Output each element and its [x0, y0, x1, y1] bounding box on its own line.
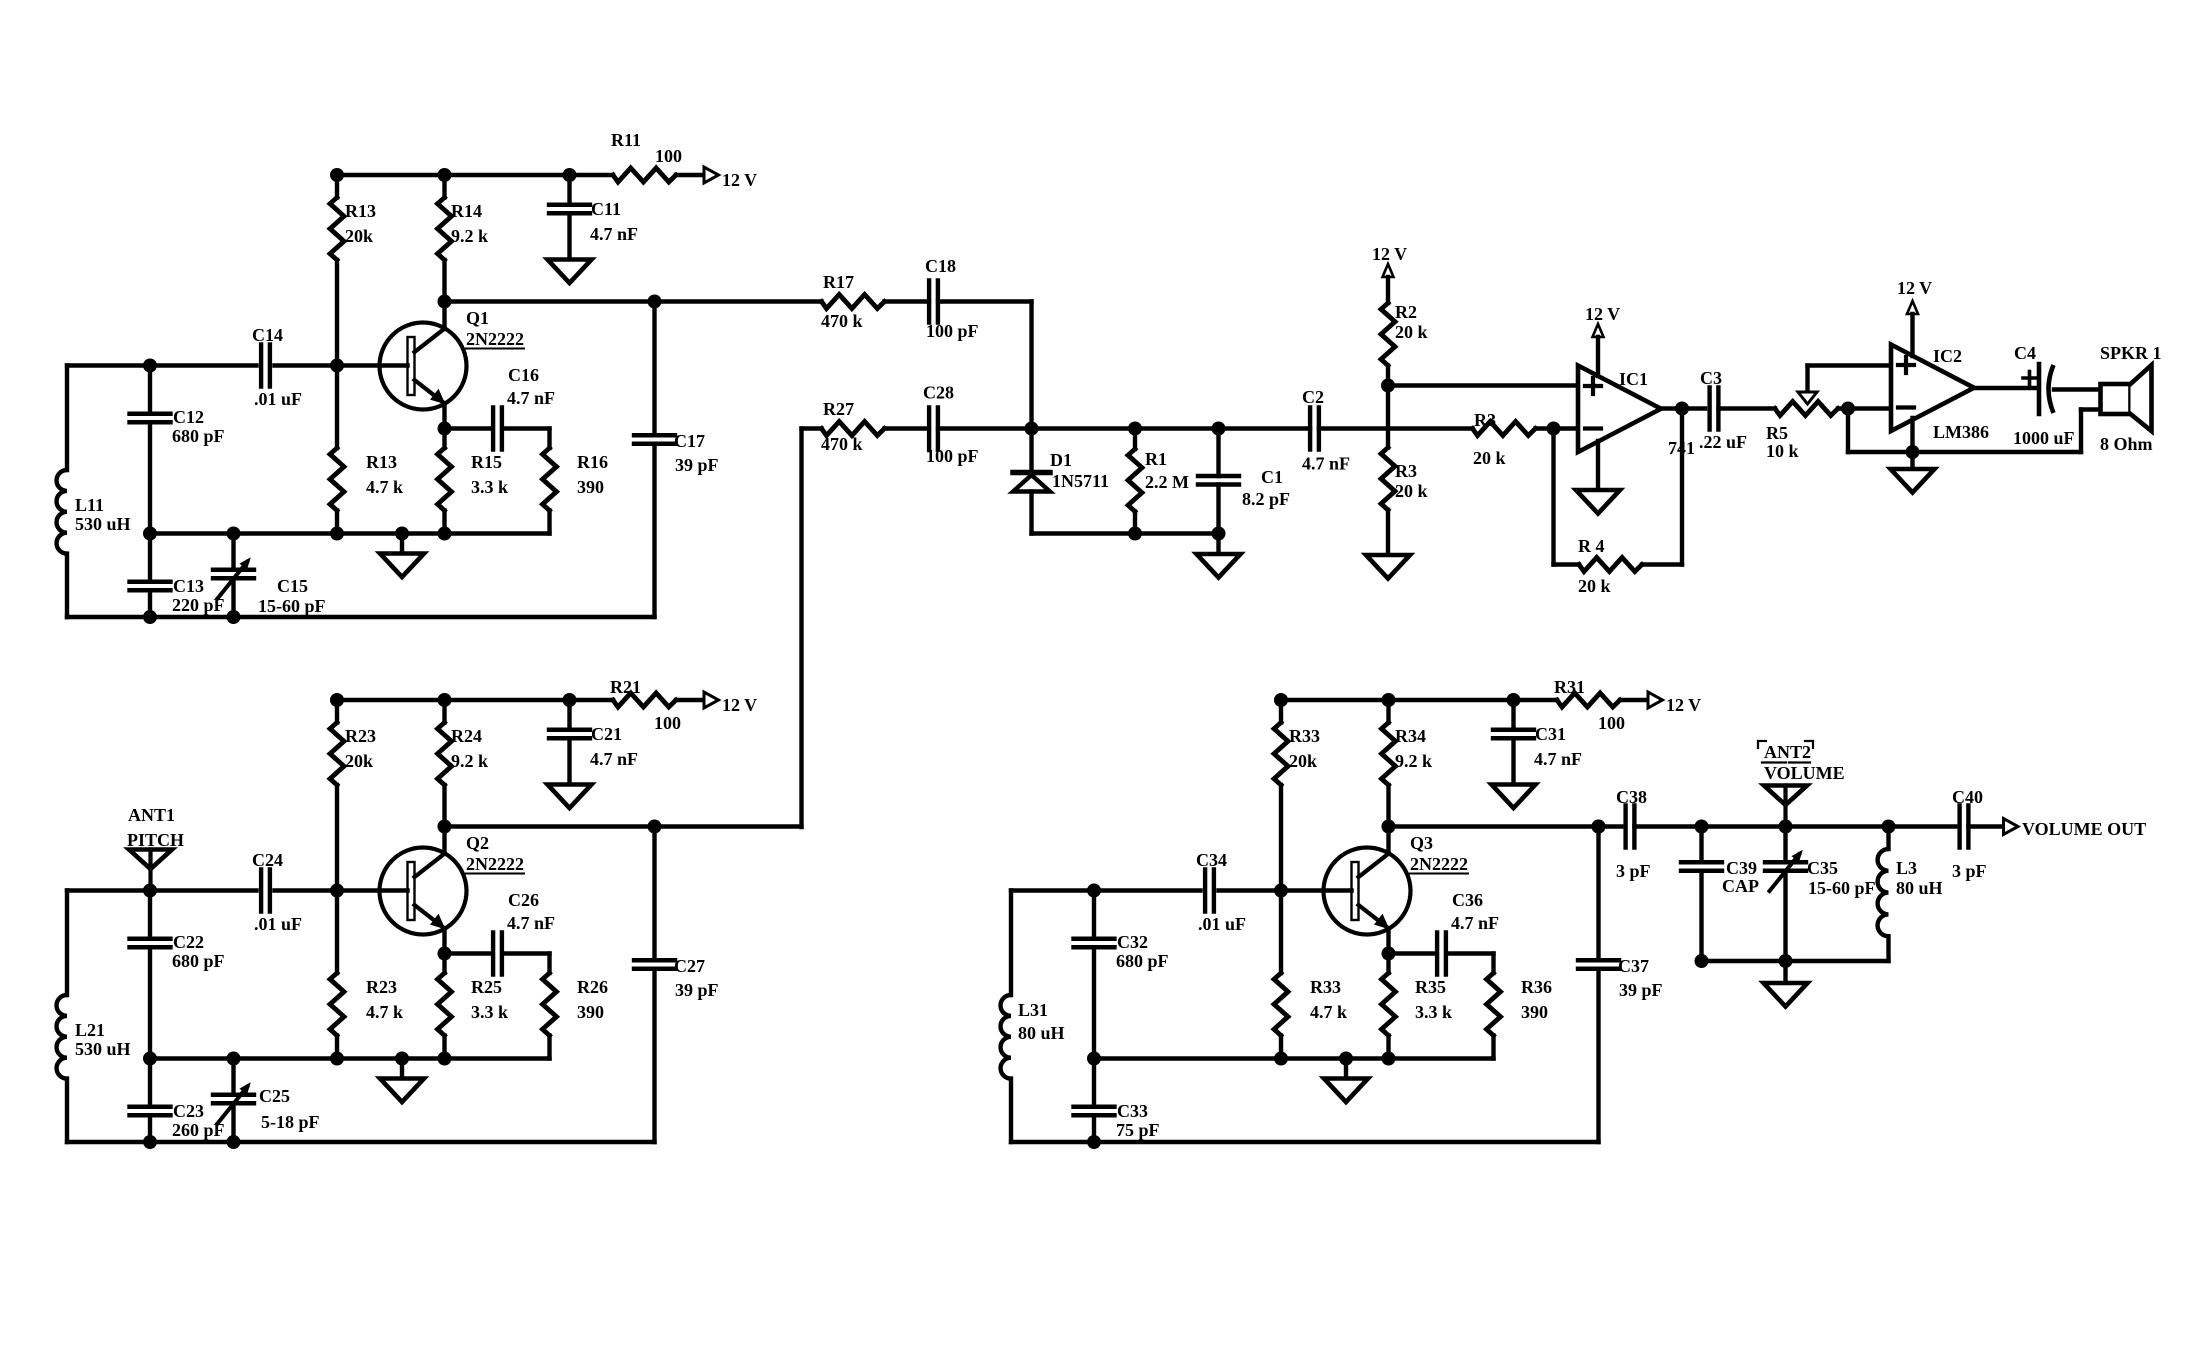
svg-text:4.7 nF: 4.7 nF	[1302, 454, 1350, 474]
svg-text:C26: C26	[508, 890, 539, 910]
capacitor C39 CAP	[1699, 827, 1703, 863]
capacitor C37 39 pF (feedback)	[1596, 827, 1600, 961]
resistor R23 20k (bias upper)	[335, 700, 339, 723]
svg-text:8 Ohm: 8 Ohm	[2100, 434, 2153, 454]
svg-text:C35: C35	[1807, 858, 1838, 878]
svg-text:3.3 k: 3.3 k	[1415, 1002, 1452, 1022]
resistor R15 3.3 k (emitter)	[442, 429, 446, 449]
svg-text:10 k: 10 k	[1766, 441, 1799, 461]
svg-text:8.2 pF: 8.2 pF	[1242, 489, 1290, 509]
resistor R24 9.2 k (collector)	[442, 700, 446, 723]
svg-text:R2: R2	[1395, 302, 1417, 322]
svg-text:100: 100	[655, 146, 682, 166]
svg-text:C18: C18	[925, 256, 956, 276]
svg-text:12 V: 12 V	[1897, 278, 1932, 298]
svg-text:R15: R15	[471, 452, 502, 472]
capacitor C28 100 pF	[927, 408, 931, 450]
capacitor C1 8.2 pF	[1216, 429, 1220, 477]
svg-text:100: 100	[654, 713, 681, 733]
svg-text:12 V: 12 V	[722, 695, 757, 715]
wire bias node to op-amp + input	[1381, 379, 1395, 393]
variable capacitor C35 15-60 pF	[1783, 827, 1787, 863]
wire tank lower rail block 3	[1011, 1140, 1599, 1144]
svg-text:.01 uF: .01 uF	[254, 914, 302, 934]
wire top supply rail block 3	[1281, 698, 1557, 702]
svg-text:2N2222: 2N2222	[1410, 854, 1468, 874]
svg-text:R33: R33	[1289, 726, 1320, 746]
resistor R3 20 k (input)	[1473, 422, 1536, 436]
resistor R35 3.3 k (emitter)	[1386, 954, 1390, 974]
capacitor C32 680 pF	[1092, 891, 1096, 939]
svg-text:530 uH: 530 uH	[75, 1039, 131, 1059]
svg-text:C32: C32	[1117, 932, 1148, 952]
svg-text:15-60 pF: 15-60 pF	[258, 596, 326, 616]
wire emitter node block 2	[438, 947, 452, 961]
svg-text:R16: R16	[577, 452, 608, 472]
svg-text:680 pF: 680 pF	[172, 951, 225, 971]
svg-text:470 k: 470 k	[821, 311, 863, 331]
svg-text:.01 uF: .01 uF	[1198, 914, 1246, 934]
svg-text:15-60 pF: 15-60 pF	[1808, 878, 1876, 898]
transistor Q3 2N2222	[1386, 827, 1390, 854]
svg-text:C37: C37	[1618, 956, 1649, 976]
svg-text:4.7 nF: 4.7 nF	[1534, 749, 1582, 769]
variable capacitor C25 5-18 pF	[231, 1059, 235, 1095]
svg-text:2N2222: 2N2222	[466, 329, 524, 349]
resistor R33 4.7 k (bias lower)	[1279, 891, 1283, 974]
wire emitter node block 3	[1382, 947, 1396, 961]
svg-text:VOLUME OUT: VOLUME OUT	[2022, 819, 2146, 839]
resistor R3 20 k (divider lower)	[1386, 386, 1390, 448]
svg-text:75 pF: 75 pF	[1116, 1120, 1160, 1140]
svg-text:20 k: 20 k	[1578, 576, 1611, 596]
wire detector row	[938, 426, 1310, 430]
svg-text:C12: C12	[173, 407, 204, 427]
svg-text:C3: C3	[1700, 368, 1722, 388]
resistor R34 9.2 k (collector)	[1386, 700, 1390, 723]
capacitor C21 4.7 nF (supply bypass)	[567, 700, 571, 730]
svg-text:R3: R3	[1395, 461, 1417, 481]
capacitor C38 3 pF	[1623, 806, 1627, 848]
transistor Q1 2N2222	[442, 302, 446, 329]
wire top supply rail block 2	[337, 698, 613, 702]
svg-text:R21: R21	[610, 677, 641, 697]
svg-text:20k: 20k	[1289, 751, 1317, 771]
capacitor C12 680 pF	[148, 366, 152, 414]
capacitor C34 .01 uF (base coupling)	[1203, 870, 1207, 912]
inductor L21	[65, 891, 69, 996]
wire IC2 output	[1974, 386, 2036, 390]
ground below emitter rail block 2	[400, 1059, 404, 1079]
diode D1 1N5711	[1029, 429, 1033, 471]
svg-text:12 V: 12 V	[1585, 304, 1620, 324]
svg-text:R34: R34	[1395, 726, 1426, 746]
svg-text:R24: R24	[451, 726, 482, 746]
svg-text:C33: C33	[1117, 1101, 1148, 1121]
wire emitter ground rail block 1	[150, 531, 550, 535]
svg-text:4.7 k: 4.7 k	[1310, 1002, 1347, 1022]
svg-text:ANT2: ANT2	[1764, 742, 1811, 762]
svg-text:100: 100	[1598, 713, 1625, 733]
capacitor C13	[148, 534, 152, 582]
wire tank lower rail block 2	[67, 1140, 655, 1144]
svg-text:L3: L3	[1896, 858, 1917, 878]
12 V supply arrow block 2	[704, 692, 719, 708]
svg-text:470 k: 470 k	[821, 434, 863, 454]
inductor L3 80 uH	[1886, 827, 1890, 850]
svg-text:390: 390	[577, 477, 604, 497]
svg-text:R33: R33	[1310, 977, 1341, 997]
svg-text:C22: C22	[173, 932, 204, 952]
resistor R1 2.2 M	[1133, 429, 1137, 450]
svg-text:4.7 k: 4.7 k	[366, 477, 403, 497]
resistor R14 9.2 k (collector)	[442, 175, 446, 198]
svg-text:R27: R27	[823, 399, 854, 419]
svg-text:ANT1: ANT1	[128, 805, 175, 825]
capacitor C4 1000 uF polarized	[2037, 364, 2042, 414]
wire collector row block 1	[438, 295, 452, 309]
capacitor C40 3 pF	[1957, 806, 1961, 848]
svg-text:.01 uF: .01 uF	[254, 389, 302, 409]
wire IC2 feedback rail	[1846, 409, 1850, 453]
ground below C1	[1216, 534, 1220, 555]
svg-text:5-18 pF: 5-18 pF	[261, 1112, 320, 1132]
svg-text:Q2: Q2	[466, 833, 489, 853]
wire top supply rail block 1	[337, 173, 613, 177]
svg-text:R5: R5	[1766, 423, 1788, 443]
wire base row block 2	[67, 888, 257, 892]
svg-text:R3: R3	[1474, 410, 1496, 430]
capacitor C33	[1092, 1059, 1096, 1107]
capacitor C18 100 pF	[927, 281, 931, 323]
svg-text:2.2 M: 2.2 M	[1145, 472, 1189, 492]
wire emitter ground rail block 3	[1094, 1056, 1494, 1060]
svg-text:C38: C38	[1616, 787, 1647, 807]
op-amp IC2 LM386	[1891, 345, 1974, 432]
ground below C11	[548, 260, 592, 284]
svg-text:C25: C25	[259, 1086, 290, 1106]
resistor R26 390	[547, 954, 551, 974]
svg-text:39 pF: 39 pF	[675, 455, 719, 475]
resistor R25 3.3 k (emitter)	[442, 954, 446, 974]
svg-text:4.7 k: 4.7 k	[366, 1002, 403, 1022]
svg-text:680 pF: 680 pF	[172, 426, 225, 446]
svg-text:C40: C40	[1952, 787, 1983, 807]
ground below IC1	[1596, 441, 1600, 490]
svg-text:L11: L11	[75, 495, 104, 515]
svg-text:R13: R13	[345, 201, 376, 221]
wire emitter node block 1	[438, 422, 452, 436]
svg-text:39 pF: 39 pF	[1619, 980, 1663, 1000]
svg-text:R 4: R 4	[1578, 536, 1605, 556]
resistor R21 100 (supply)	[613, 693, 676, 707]
speaker SPKR 1 8 Ohm	[2101, 384, 2131, 414]
wire base row block 3	[1011, 888, 1201, 892]
svg-text:100 pF: 100 pF	[926, 321, 979, 341]
ground below IC2	[1910, 418, 1914, 469]
svg-text:4.7 nF: 4.7 nF	[507, 388, 555, 408]
svg-text:2N2222: 2N2222	[466, 854, 524, 874]
capacitor C23	[148, 1059, 152, 1107]
svg-text:L31: L31	[1018, 1000, 1048, 1020]
svg-text:3.3 k: 3.3 k	[471, 477, 508, 497]
svg-text:LM386: LM386	[1933, 422, 1989, 442]
capacitor C2 4.7 nF	[1308, 408, 1312, 450]
svg-text:Q3: Q3	[1410, 833, 1433, 853]
svg-text:20 k: 20 k	[1473, 448, 1506, 468]
svg-text:C28: C28	[923, 383, 954, 403]
svg-text:390: 390	[1521, 1002, 1548, 1022]
svg-text:PITCH: PITCH	[127, 830, 184, 850]
wire C18 to detector node	[938, 299, 1032, 303]
capacitor C3 .22 uF	[1707, 388, 1711, 430]
svg-text:C21: C21	[591, 724, 622, 744]
svg-text:12 V: 12 V	[722, 170, 757, 190]
svg-text:12 V: 12 V	[1372, 244, 1407, 264]
wire op-amp output node	[1661, 406, 1705, 410]
wire detector ground rail	[1032, 531, 1219, 535]
12 V supply arrow block 3	[1648, 692, 1663, 708]
svg-text:20 k: 20 k	[1395, 322, 1428, 342]
svg-text:C4: C4	[2014, 343, 2036, 363]
svg-text:R23: R23	[345, 726, 376, 746]
svg-text:20 k: 20 k	[1395, 481, 1428, 501]
svg-text:39 pF: 39 pF	[675, 980, 719, 1000]
svg-text:C17: C17	[674, 431, 705, 451]
svg-text:C31: C31	[1535, 724, 1566, 744]
svg-text:IC1: IC1	[1619, 369, 1648, 389]
svg-text:L21: L21	[75, 1020, 105, 1040]
svg-text:C16: C16	[508, 365, 539, 385]
ground below emitter rail block 3	[1344, 1059, 1348, 1079]
capacitor C22 680 pF	[148, 891, 152, 939]
VOLUME OUT arrow	[2004, 819, 2019, 835]
resistor R13 20k (bias upper)	[335, 175, 339, 198]
resistor R 4 20 k feedback loop	[1551, 429, 1555, 565]
wire block 2 output riser	[799, 429, 803, 828]
svg-text:R31: R31	[1554, 677, 1585, 697]
svg-text:80 uH: 80 uH	[1896, 878, 1943, 898]
capacitor C24 .01 uF (base coupling)	[259, 870, 263, 912]
svg-text:R17: R17	[823, 272, 854, 292]
svg-text:C14: C14	[252, 325, 283, 345]
svg-text:R14: R14	[451, 201, 482, 221]
svg-text:C2: C2	[1302, 387, 1324, 407]
wire tank lower rail block 1	[67, 615, 655, 619]
svg-text:C13: C13	[173, 576, 204, 596]
capacitor C36 4.7 nF (emitter bypass)	[1435, 933, 1439, 975]
svg-text:1000 uF: 1000 uF	[2013, 428, 2075, 448]
svg-text:20k: 20k	[345, 751, 373, 771]
svg-text:80 uH: 80 uH	[1018, 1023, 1065, 1043]
capacitor C16 4.7 nF (emitter bypass)	[491, 408, 495, 450]
svg-text:4.7 nF: 4.7 nF	[590, 224, 638, 244]
antenna ANT2 VOLUME	[1764, 786, 1807, 806]
transistor Q2 2N2222	[442, 827, 446, 854]
svg-text:12 V: 12 V	[1666, 695, 1701, 715]
svg-text:530 uH: 530 uH	[75, 514, 131, 534]
wire emitter ground rail block 2	[150, 1056, 550, 1060]
svg-text:3 pF: 3 pF	[1616, 861, 1651, 881]
ground below C21	[548, 785, 592, 809]
resistor R27 470 k	[802, 426, 822, 430]
svg-text:C36: C36	[1452, 890, 1483, 910]
capacitor C11 4.7 nF (supply bypass)	[567, 175, 571, 205]
resistor R2 20 k	[1381, 303, 1395, 366]
svg-text:20k: 20k	[345, 226, 373, 246]
capacitor C14 .01 uF (base coupling)	[259, 345, 263, 387]
svg-text:9.2 k: 9.2 k	[451, 226, 488, 246]
capacitor C27 39 pF (feedback)	[652, 827, 656, 961]
svg-text:C27: C27	[674, 956, 705, 976]
svg-text:4.7 nF: 4.7 nF	[590, 749, 638, 769]
svg-text:1N5711: 1N5711	[1052, 471, 1109, 491]
svg-text:390: 390	[577, 1002, 604, 1022]
svg-text:4.7 nF: 4.7 nF	[507, 913, 555, 933]
svg-text:C39: C39	[1726, 858, 1757, 878]
op-amp IC1 741	[1578, 366, 1661, 453]
svg-text:SPKR 1: SPKR 1	[2100, 343, 2162, 363]
inductor L31	[1009, 891, 1013, 996]
svg-text:C15: C15	[277, 576, 308, 596]
12 V supply arrow block 1	[704, 167, 719, 183]
svg-text:C1: C1	[1261, 467, 1283, 487]
capacitor C17 39 pF (feedback)	[652, 302, 656, 436]
resistor R16 390	[547, 429, 551, 449]
svg-text:R26: R26	[577, 977, 608, 997]
ground below C31	[1492, 785, 1536, 809]
wire block 3 output row	[1599, 824, 1622, 828]
svg-text:.22 uF: .22 uF	[1699, 432, 1747, 452]
svg-text:C34: C34	[1196, 850, 1227, 870]
wire collector row block 2	[438, 820, 452, 834]
wire collector row block 3	[1382, 820, 1396, 834]
capacitor C31 4.7 nF (supply bypass)	[1511, 700, 1515, 730]
ground below ANT2 network	[1783, 961, 1787, 983]
svg-text:9.2 k: 9.2 k	[451, 751, 488, 771]
svg-text:9.2 k: 9.2 k	[1395, 751, 1432, 771]
ground below divider	[1366, 555, 1410, 579]
svg-text:3.3 k: 3.3 k	[471, 1002, 508, 1022]
svg-text:680 pF: 680 pF	[1116, 951, 1169, 971]
svg-text:C11: C11	[591, 199, 621, 219]
svg-text:R23: R23	[366, 977, 397, 997]
resistor R11 100 (supply)	[613, 168, 676, 182]
resistor R13 4.7 k (bias lower)	[335, 366, 339, 449]
svg-text:R35: R35	[1415, 977, 1446, 997]
resistor R31 100 (supply)	[1557, 693, 1620, 707]
wire volume network ground rail	[1702, 959, 1889, 963]
potentiometer R5 10 k	[1775, 402, 1838, 416]
capacitor C26 4.7 nF (emitter bypass)	[491, 933, 495, 975]
inductor L11	[65, 366, 69, 471]
svg-text:D1: D1	[1050, 450, 1072, 470]
svg-text:R1: R1	[1145, 449, 1167, 469]
svg-text:IC2: IC2	[1933, 346, 1962, 366]
wire base row block 1	[67, 363, 257, 367]
ground below emitter rail block 1	[400, 534, 404, 554]
svg-text:100 pF: 100 pF	[926, 446, 979, 466]
svg-text:R11: R11	[611, 130, 641, 150]
svg-text:C24: C24	[252, 850, 283, 870]
svg-text:VOLUME: VOLUME	[1764, 763, 1845, 783]
svg-text:R13: R13	[366, 452, 397, 472]
svg-text:Q1: Q1	[466, 308, 489, 328]
antenna ANT1 PITCH	[129, 850, 172, 870]
svg-text:R25: R25	[471, 977, 502, 997]
svg-text:C23: C23	[173, 1101, 204, 1121]
resistor R33 20k (bias upper)	[1279, 700, 1283, 723]
resistor R17 470 k	[822, 295, 885, 309]
svg-text:3 pF: 3 pF	[1952, 861, 1987, 881]
wire R5 wiper to IC2 + input	[1808, 363, 1892, 367]
wire collector row 1 to mixer	[655, 299, 822, 303]
svg-text:R36: R36	[1521, 977, 1552, 997]
svg-text:4.7 nF: 4.7 nF	[1451, 913, 1499, 933]
resistor R23 4.7 k (bias lower)	[335, 891, 339, 974]
variable capacitor C15 15-60 pF	[231, 534, 235, 570]
resistor R36 390	[1491, 954, 1495, 974]
svg-text:CAP: CAP	[1722, 876, 1759, 896]
